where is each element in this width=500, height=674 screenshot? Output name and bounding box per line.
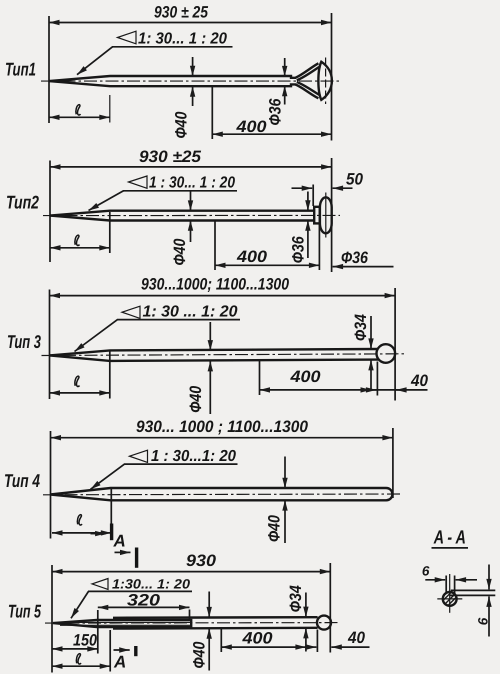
taper symbol T5 [92, 579, 108, 590]
svg-text:50: 50 [346, 171, 364, 189]
svg-text:400: 400 [241, 630, 273, 648]
bar type 2 bottom edge [50, 216, 314, 221]
svg-text:1: 30 ... 1: 20: 1: 30 ... 1: 20 [143, 304, 238, 321]
shaft T5 [113, 616, 318, 619]
bar type 1 bottom edge [49, 81, 296, 86]
section trace A lower (T5) [134, 646, 137, 656]
taper symbol T1 [118, 31, 137, 44]
wire: taper underline T4 [124, 463, 238, 465]
svg-text:150: 150 [73, 632, 98, 650]
dimension l T4 [110, 489, 112, 527]
wire: extension line left T2 [49, 161, 51, 263]
dimension l T3 [109, 352, 111, 399]
bar type 4 outline [51, 488, 393, 500]
centerline T1 [41, 80, 342, 82]
wire: extension line right T3 [394, 288, 396, 401]
dimension 6 vertical [488, 565, 490, 590]
bar type 3 bottom edge [50, 355, 379, 361]
spade head T1: cap lens [318, 62, 332, 100]
wire: extension line left T3 [49, 290, 51, 400]
wire: taper leader arrow T3 [75, 320, 118, 352]
dimension Ф40 T4 [284, 457, 286, 489]
svg-text:Тип1: Тип1 [5, 59, 36, 80]
wire: taper leader arrow T5 [71, 591, 89, 618]
wire: extension line right T2 [331, 158, 333, 272]
dimension 400 T5 [220, 629, 222, 652]
dimension l T5 [109, 630, 111, 672]
svg-text:A: A [113, 532, 126, 551]
dimension 930±25 T2 [50, 166, 332, 168]
svg-text:6: 6 [422, 564, 430, 579]
svg-text:1: 30... 1 : 20: 1: 30... 1 : 20 [138, 31, 227, 48]
svg-text:930 ±25: 930 ±25 [139, 148, 202, 166]
wire: taper leader arrow T1 [77, 47, 113, 75]
dimension 930 T5 [52, 571, 330, 573]
svg-text:Ф36: Ф36 [290, 236, 308, 264]
blade T5 inner edges [60, 621, 190, 623]
section trace A (T4) [110, 524, 113, 541]
dimension Ф40 T1 [192, 57, 194, 76]
svg-text:40: 40 [410, 372, 429, 390]
wire: taper leader arrow T2 [89, 191, 124, 211]
dimension 150 T5 [52, 648, 98, 650]
wire: head vertical line T2 [325, 193, 327, 238]
svg-text:40: 40 [347, 629, 366, 647]
bar type 1 top edge [49, 76, 296, 81]
svg-text:Ф40: Ф40 [266, 514, 284, 542]
section trace A upper (T5) [135, 548, 138, 568]
wire: extension line left T4 [50, 431, 52, 539]
ball head T3 [377, 344, 396, 363]
svg-text:930...1000; 1100...1300: 930...1000; 1100...1300 [141, 276, 290, 294]
svg-text:Ф34: Ф34 [287, 585, 305, 612]
dimension l T1 [109, 95, 111, 123]
centerline T3 [42, 354, 405, 356]
svg-text:400: 400 [235, 118, 267, 136]
svg-text:400: 400 [236, 248, 268, 266]
bar type 3 top edge [50, 349, 379, 355]
dimension Ф36 T1 [284, 58, 286, 76]
wire: taper underline T3 [117, 319, 240, 321]
bar type 2 top edge [50, 211, 314, 216]
centerline T2 [43, 214, 340, 216]
wire: circle centerlines [449, 574, 451, 613]
dimension Ф36 head T2 [333, 266, 394, 268]
blade T5 outline [53, 620, 191, 627]
ball head T5 [317, 616, 331, 630]
wire: extension line left T5 [51, 565, 53, 673]
taper symbol T3 [122, 306, 140, 318]
wire: head vertical dash line T1 [325, 58, 327, 105]
svg-text:Тип 5: Тип 5 [8, 601, 41, 622]
dimension 400 T1 [211, 87, 213, 140]
svg-text:Ф36: Ф36 [341, 249, 369, 267]
dimension Ф34 T3 [370, 316, 372, 349]
centerline T4 [43, 493, 402, 496]
svg-text:Ф40: Ф40 [187, 385, 205, 413]
dimension Ф40 T5 [208, 592, 210, 618]
wire: extension line right T4 [392, 428, 394, 498]
svg-text:930: 930 [186, 552, 217, 570]
svg-text:1 : 30... 1 : 20: 1 : 30... 1 : 20 [149, 175, 235, 192]
dimension l T2 [109, 212, 111, 253]
wire: extension line right T1 [331, 13, 333, 141]
dimension 400 T2 [214, 221, 216, 270]
dimension 40 T3 [376, 362, 378, 396]
dimension Ф40 T2 [190, 191, 192, 211]
wire: extension line right T5 [329, 563, 331, 653]
spade head T1: wings [296, 63, 319, 77]
taper symbol T4 [130, 450, 148, 462]
dimension Ф36 neck T2 [307, 192, 309, 211]
svg-text:1:30... 1: 20: 1:30... 1: 20 [112, 577, 191, 592]
svg-text:1 : 30...1: 20: 1 : 30...1: 20 [151, 448, 236, 465]
dimension 930...1000 T4 [51, 437, 393, 439]
dimension 930...1000 T3 [50, 295, 396, 297]
dimension Ф34 T5 [305, 593, 307, 618]
svg-text:Ф36: Ф36 [267, 98, 285, 126]
wire: extension line left T1 [48, 16, 50, 123]
svg-text:Ф40: Ф40 [171, 238, 189, 266]
dimension 320 T5 [97, 610, 99, 654]
dimension 930±25 T1 [49, 22, 332, 24]
dimension 400 T3 [259, 360, 261, 395]
svg-text:930 ± 25: 930 ± 25 [154, 4, 209, 22]
svg-text:400: 400 [289, 368, 321, 386]
svg-text:930... 1000 ; 1100...1300: 930... 1000 ; 1100...1300 [136, 418, 309, 436]
svg-text:Тип 3: Тип 3 [7, 331, 41, 352]
dimension 40 T5 [316, 630, 318, 653]
svg-text:Тип 4: Тип 4 [4, 470, 40, 491]
wire: taper leader arrow T4 [91, 464, 125, 489]
svg-text:Ф40: Ф40 [173, 111, 191, 139]
wire: taper underline T2 [123, 190, 237, 192]
svg-text:6: 6 [475, 617, 490, 625]
svg-text:320: 320 [127, 591, 161, 609]
centerline T5 [45, 622, 340, 625]
wire: flat extension lines right [451, 589, 496, 591]
taper symbol T2 [129, 176, 148, 188]
svg-text:A: A [113, 653, 126, 672]
dimension Ф40 T3 [209, 322, 211, 351]
wire: A-A underline [432, 547, 469, 549]
section circle hatched [443, 592, 457, 606]
head T2: pill [320, 197, 332, 233]
head T2: neck disc [314, 207, 320, 224]
svg-text:Ф34: Ф34 [352, 314, 370, 341]
wire: taper underline T5 [88, 590, 192, 592]
svg-text:Ф40: Ф40 [191, 641, 209, 669]
wire: taper underline T1 [112, 46, 233, 48]
svg-text:A - A: A - A [433, 528, 466, 549]
svg-text:Тип2: Тип2 [6, 192, 40, 213]
dimension 50 T2 [312, 185, 314, 207]
